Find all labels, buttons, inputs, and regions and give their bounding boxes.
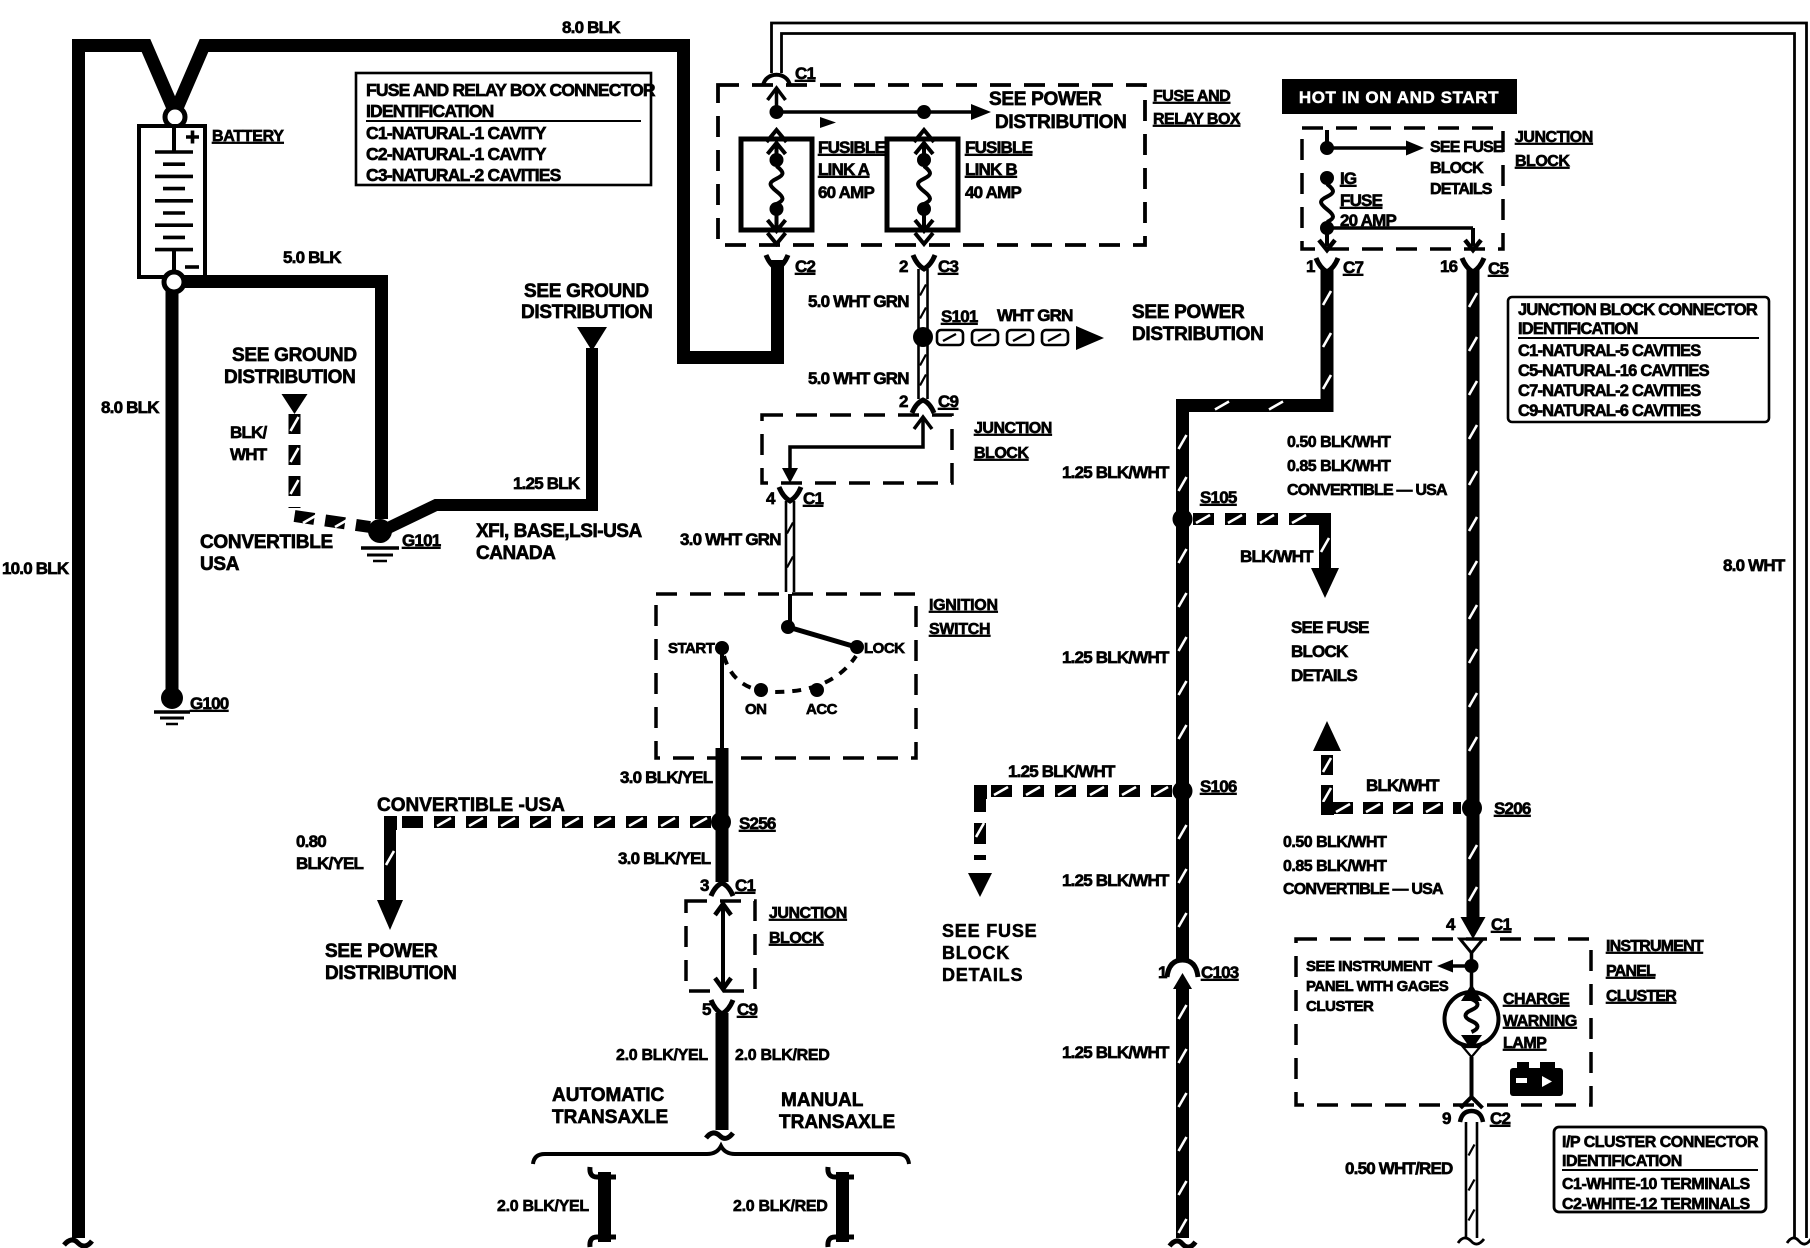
svg-text:C2-NATURAL-1 CAVITY: C2-NATURAL-1 CAVITY bbox=[366, 144, 547, 164]
svg-text:S101: S101 bbox=[941, 307, 978, 326]
connector C2 instrument cluster bbox=[1460, 1111, 1483, 1122]
svg-text:USA: USA bbox=[200, 554, 240, 575]
svg-text:3: 3 bbox=[700, 876, 709, 895]
svg-text:DISTRIBUTION: DISTRIBUTION bbox=[224, 367, 356, 388]
wire 1.25 BLK/WHT main run (C7 to C103 to bottom) bbox=[1183, 270, 1328, 1238]
svg-text:SEE FUSE: SEE FUSE bbox=[942, 921, 1037, 941]
svg-text:BLOCK: BLOCK bbox=[1430, 160, 1484, 177]
svg-text:DETAILS: DETAILS bbox=[1430, 181, 1493, 198]
svg-text:FUSE AND RELAY BOX CONNECTOR: FUSE AND RELAY BOX CONNECTOR bbox=[366, 80, 656, 100]
ignition switch contacts bbox=[788, 594, 792, 627]
svg-text:4: 4 bbox=[766, 489, 776, 508]
battery positive terminal bbox=[165, 107, 185, 127]
svg-text:1: 1 bbox=[1306, 257, 1315, 276]
fuse and relay box connector identification note bbox=[356, 73, 651, 185]
svg-text:LOCK: LOCK bbox=[864, 640, 905, 657]
svg-text:1: 1 bbox=[1158, 963, 1167, 982]
svg-text:S105: S105 bbox=[1200, 488, 1237, 507]
wire 0.80 BLK/YEL convertible branch bbox=[395, 816, 711, 828]
svg-text:1.25 BLK/WHT: 1.25 BLK/WHT bbox=[1062, 871, 1170, 890]
svg-text:WARNING: WARNING bbox=[1503, 1013, 1577, 1030]
svg-text:DISTRIBUTION: DISTRIBUTION bbox=[521, 302, 653, 323]
svg-text:0.85 BLK/WHT: 0.85 BLK/WHT bbox=[1283, 858, 1387, 875]
svg-text:FUSIBLE: FUSIBLE bbox=[965, 138, 1033, 157]
i/p cluster connector identification note bbox=[1554, 1127, 1766, 1212]
svg-text:DETAILS: DETAILS bbox=[1291, 666, 1357, 685]
connector C7 bbox=[1316, 258, 1338, 272]
bracket 2.0 BLK/RED (manual) bbox=[836, 1172, 849, 1242]
svg-text:1.25 BLK/WHT: 1.25 BLK/WHT bbox=[1008, 762, 1116, 781]
svg-text:C1: C1 bbox=[1491, 915, 1511, 934]
fuse and relay box (dashed) bbox=[718, 85, 1145, 245]
svg-text:BLOCK: BLOCK bbox=[1515, 153, 1570, 170]
svg-text:BLK/WHT: BLK/WHT bbox=[1240, 547, 1314, 566]
wire 8.0 BLK battery to G100 bbox=[166, 291, 179, 690]
svg-text:0.50 BLK/WHT: 0.50 BLK/WHT bbox=[1287, 434, 1391, 451]
svg-text:WHT GRN: WHT GRN bbox=[997, 306, 1073, 325]
power bus inside fuse box bbox=[768, 88, 786, 100]
svg-text:PANEL: PANEL bbox=[1606, 963, 1656, 980]
junction block (middle) bbox=[762, 415, 952, 483]
svg-text:2.0 BLK/YEL: 2.0 BLK/YEL bbox=[616, 1047, 708, 1064]
battery B1 bbox=[139, 126, 205, 277]
splice S206 bbox=[1462, 798, 1482, 818]
svg-text:IDENTIFICATION: IDENTIFICATION bbox=[366, 101, 494, 121]
svg-text:BLK/YEL: BLK/YEL bbox=[296, 854, 364, 873]
svg-text:2.0 BLK/RED: 2.0 BLK/RED bbox=[733, 1198, 828, 1215]
svg-text:C1-NATURAL-5 CAVITIES: C1-NATURAL-5 CAVITIES bbox=[1518, 342, 1701, 360]
junction block connector identification note bbox=[1508, 297, 1769, 422]
svg-text:SWITCH: SWITCH bbox=[929, 621, 990, 638]
svg-text:CONVERTIBLE — USA: CONVERTIBLE — USA bbox=[1287, 482, 1448, 499]
svg-text:C3-NATURAL-2 CAVITIES: C3-NATURAL-2 CAVITIES bbox=[366, 165, 561, 185]
svg-text:SEE POWER: SEE POWER bbox=[989, 89, 1102, 110]
svg-text:BLOCK: BLOCK bbox=[942, 943, 1010, 963]
svg-text:PANEL WITH GAGES: PANEL WITH GAGES bbox=[1306, 978, 1449, 995]
ground G101 bbox=[368, 519, 392, 543]
fusible link B bbox=[914, 130, 934, 142]
junction block 2 internal wire bbox=[721, 908, 725, 985]
svg-text:0.50 BLK/WHT: 0.50 BLK/WHT bbox=[1283, 834, 1387, 851]
svg-text:CONVERTIBLE -USA: CONVERTIBLE -USA bbox=[377, 795, 565, 816]
svg-text:BLOCK: BLOCK bbox=[974, 445, 1029, 462]
svg-text:ACC: ACC bbox=[806, 701, 838, 718]
svg-text:SEE POWER: SEE POWER bbox=[325, 941, 438, 962]
wire 10.0 BLK left edge bbox=[72, 46, 85, 1239]
splice S256 bbox=[711, 812, 731, 832]
svg-text:DISTRIBUTION: DISTRIBUTION bbox=[1132, 324, 1264, 345]
cluster feed node and see-instrument arrow bbox=[1470, 953, 1474, 992]
svg-text:INSTRUMENT: INSTRUMENT bbox=[1606, 938, 1704, 955]
wire BLK/WHT branch from S105 to fuse block bbox=[1193, 513, 1316, 525]
svg-text:C1-NATURAL-1 CAVITY: C1-NATURAL-1 CAVITY bbox=[366, 123, 547, 143]
wire 8.0 WHT hollow (C1 to right edge) bbox=[772, 23, 1807, 1238]
svg-text:8.0 WHT: 8.0 WHT bbox=[1723, 556, 1786, 575]
svg-text:SEE INSTRUMENT: SEE INSTRUMENT bbox=[1306, 958, 1432, 975]
svg-text:2: 2 bbox=[899, 257, 908, 276]
svg-text:SEE FUSE: SEE FUSE bbox=[1291, 618, 1369, 637]
svg-text:C2: C2 bbox=[795, 257, 815, 276]
connector C9 junction block bbox=[912, 400, 934, 413]
svg-text:IDENTIFICATION: IDENTIFICATION bbox=[1518, 320, 1638, 338]
svg-text:C1: C1 bbox=[795, 64, 815, 83]
svg-text:IGNITION: IGNITION bbox=[929, 597, 998, 614]
svg-text:S106: S106 bbox=[1200, 777, 1237, 796]
svg-text:WHT: WHT bbox=[230, 445, 268, 464]
svg-text:3.0 WHT GRN: 3.0 WHT GRN bbox=[680, 530, 781, 549]
svg-text:0.50 WHT/RED: 0.50 WHT/RED bbox=[1345, 1159, 1453, 1178]
wire BLK/WHT branch from S206 up to fuse block bbox=[1313, 721, 1341, 751]
charge warning lamp bbox=[1445, 992, 1499, 1046]
svg-text:0.80: 0.80 bbox=[296, 832, 326, 851]
wire 2.0 BLK/YEL / 2.0 BLK/RED (C9 down) bbox=[716, 1013, 729, 1130]
svg-text:IDENTIFICATION: IDENTIFICATION bbox=[1562, 1153, 1682, 1170]
svg-text:CONVERTIBLE — USA: CONVERTIBLE — USA bbox=[1283, 881, 1444, 898]
svg-text:2: 2 bbox=[899, 392, 908, 411]
svg-text:3.0 BLK/YEL: 3.0 BLK/YEL bbox=[620, 768, 713, 787]
svg-text:1.25 BLK: 1.25 BLK bbox=[513, 474, 581, 493]
svg-text:1.25 BLK/WHT: 1.25 BLK/WHT bbox=[1062, 463, 1170, 482]
svg-text:BLOCK: BLOCK bbox=[769, 930, 824, 947]
connector C3 bbox=[913, 255, 935, 269]
svg-text:LINK A: LINK A bbox=[818, 160, 870, 179]
svg-text:BLK/WHT: BLK/WHT bbox=[1366, 776, 1440, 795]
wire 1.25 BLK/WHT branch from S106 to fuse block bbox=[980, 791, 1172, 860]
svg-text:9: 9 bbox=[1442, 1109, 1451, 1128]
svg-text:C9-NATURAL-6 CAVITIES: C9-NATURAL-6 CAVITIES bbox=[1518, 402, 1701, 420]
svg-text:C103: C103 bbox=[1201, 963, 1239, 982]
battery negative terminal bbox=[164, 272, 184, 292]
bracket 2.0 BLK/YEL (automatic) bbox=[598, 1172, 611, 1242]
svg-text:I/P CLUSTER CONNECTOR: I/P CLUSTER CONNECTOR bbox=[1562, 1134, 1759, 1151]
svg-text:BLOCK: BLOCK bbox=[1291, 642, 1349, 661]
svg-text:DISTRIBUTION: DISTRIBUTION bbox=[325, 963, 457, 984]
svg-text:C1: C1 bbox=[735, 876, 755, 895]
svg-text:C9: C9 bbox=[737, 1000, 757, 1019]
connector C103 bbox=[1174, 961, 1191, 986]
svg-text:5.0 WHT GRN: 5.0 WHT GRN bbox=[808, 369, 909, 388]
svg-text:40 AMP: 40 AMP bbox=[965, 183, 1021, 202]
connector C1 junction block 2 bbox=[711, 883, 733, 896]
wire 5.0 WHT GRN hollow (C3 to C9) bbox=[917, 269, 920, 399]
svg-text:1.25 BLK/WHT: 1.25 BLK/WHT bbox=[1062, 1043, 1170, 1062]
svg-text:FUSE: FUSE bbox=[1340, 191, 1383, 210]
svg-text:C5-NATURAL-16 CAVITIES: C5-NATURAL-16 CAVITIES bbox=[1518, 362, 1710, 380]
svg-text:2.0 BLK/YEL: 2.0 BLK/YEL bbox=[497, 1198, 589, 1215]
wire 3.0 BLK/YEL (START to S256) bbox=[720, 652, 724, 750]
svg-text:S256: S256 bbox=[739, 814, 776, 833]
svg-text:C2-WHITE-12 TERMINALS: C2-WHITE-12 TERMINALS bbox=[1562, 1196, 1751, 1213]
svg-text:JUNCTION BLOCK CONNECTOR: JUNCTION BLOCK CONNECTOR bbox=[1518, 301, 1758, 319]
svg-text:2.0 BLK/RED: 2.0 BLK/RED bbox=[735, 1047, 830, 1064]
svg-text:FUSE AND: FUSE AND bbox=[1153, 88, 1230, 105]
svg-text:20 AMP: 20 AMP bbox=[1340, 211, 1396, 230]
svg-text:C2: C2 bbox=[1490, 1109, 1510, 1128]
wire 8.0 BLK battery positive feed bbox=[72, 46, 173, 109]
svg-text:1.25 BLK/WHT: 1.25 BLK/WHT bbox=[1062, 648, 1170, 667]
svg-text:DETAILS: DETAILS bbox=[942, 965, 1023, 985]
svg-text:SEE POWER: SEE POWER bbox=[1132, 302, 1245, 323]
svg-text:ON: ON bbox=[745, 701, 767, 718]
banner HOT IN ON AND START bbox=[1282, 79, 1517, 114]
wire 3.0 WHT GRN hollow (C1 to ignition switch) bbox=[785, 501, 788, 592]
svg-text:BLK/: BLK/ bbox=[230, 423, 268, 442]
svg-text:5.0 BLK: 5.0 BLK bbox=[283, 248, 342, 267]
svg-text:CLUSTER: CLUSTER bbox=[1606, 988, 1677, 1005]
svg-text:SEE FUSE: SEE FUSE bbox=[1430, 139, 1504, 156]
svg-text:G100: G100 bbox=[190, 694, 229, 713]
connector C1 junction block bbox=[779, 487, 801, 501]
svg-text:TRANSAXLE: TRANSAXLE bbox=[779, 1112, 895, 1133]
svg-text:CLUSTER: CLUSTER bbox=[1306, 998, 1374, 1015]
instrument panel cluster (dashed box) bbox=[1296, 939, 1591, 1105]
connector C1 fuse box bbox=[763, 75, 790, 86]
wire 1.25 BLK bbox=[384, 348, 592, 530]
svg-text:CONVERTIBLE: CONVERTIBLE bbox=[200, 532, 333, 553]
svg-text:G101: G101 bbox=[402, 531, 441, 550]
svg-text:TRANSAXLE: TRANSAXLE bbox=[552, 1107, 668, 1128]
wire 0.50 BLK/WHT (C5 to instrument cluster) bbox=[1467, 270, 1480, 918]
brace (transaxle choices) bbox=[533, 1146, 909, 1164]
svg-text:60 AMP: 60 AMP bbox=[818, 183, 874, 202]
svg-text:0.85 BLK/WHT: 0.85 BLK/WHT bbox=[1287, 458, 1391, 475]
svg-text:16: 16 bbox=[1440, 257, 1458, 276]
fusible link A bbox=[767, 130, 787, 142]
svg-text:5.0 WHT GRN: 5.0 WHT GRN bbox=[808, 292, 909, 311]
svg-text:C5: C5 bbox=[1488, 259, 1508, 278]
svg-text:LINK B: LINK B bbox=[965, 160, 1017, 179]
svg-text:IG: IG bbox=[1340, 169, 1357, 188]
svg-text:JUNCTION: JUNCTION bbox=[1515, 129, 1593, 146]
svg-text:HOT IN ON AND START: HOT IN ON AND START bbox=[1299, 88, 1499, 107]
connector C1 instrument cluster bbox=[1460, 939, 1483, 953]
svg-text:C7-NATURAL-2 CAVITIES: C7-NATURAL-2 CAVITIES bbox=[1518, 382, 1701, 400]
svg-text:SEE GROUND: SEE GROUND bbox=[524, 281, 649, 302]
svg-text:C1: C1 bbox=[803, 489, 823, 508]
ground G100 bbox=[161, 687, 183, 709]
svg-text:C7: C7 bbox=[1343, 258, 1363, 277]
svg-text:C1-WHITE-10 TERMINALS: C1-WHITE-10 TERMINALS bbox=[1562, 1176, 1751, 1193]
svg-text:BATTERY: BATTERY bbox=[212, 128, 284, 145]
svg-text:C9: C9 bbox=[938, 392, 958, 411]
svg-text:8.0 BLK: 8.0 BLK bbox=[101, 398, 160, 417]
splice S106 bbox=[1173, 781, 1193, 801]
connector C5 bbox=[1462, 258, 1484, 272]
svg-text:MANUAL: MANUAL bbox=[781, 1090, 864, 1111]
svg-text:RELAY BOX: RELAY BOX bbox=[1153, 111, 1241, 128]
junction block 2 (dashed) bbox=[686, 901, 755, 991]
IG fuse and internal bus bbox=[1325, 130, 1329, 147]
svg-text:S206: S206 bbox=[1494, 799, 1531, 818]
svg-text:LAMP: LAMP bbox=[1503, 1035, 1547, 1052]
svg-text:XFI, BASE,LSI-USA: XFI, BASE,LSI-USA bbox=[476, 521, 642, 542]
dashed arrow WHT GRN to power distribution bbox=[937, 330, 963, 345]
ignition switch (dashed box) bbox=[656, 594, 916, 758]
svg-text:JUNCTION: JUNCTION bbox=[974, 420, 1052, 437]
svg-text:JUNCTION: JUNCTION bbox=[769, 905, 847, 922]
splice S101 bbox=[913, 327, 933, 347]
junction block internal wire bbox=[914, 417, 932, 429]
svg-text:AUTOMATIC: AUTOMATIC bbox=[552, 1085, 665, 1106]
connector C2 bbox=[766, 255, 788, 269]
svg-text:FUSIBLE: FUSIBLE bbox=[818, 138, 886, 157]
svg-text:4: 4 bbox=[1446, 915, 1456, 934]
connector C9 junction block 2 bbox=[711, 1000, 733, 1014]
junction block 3 (dashed, IG fuse) bbox=[1302, 128, 1503, 249]
svg-text:CHARGE: CHARGE bbox=[1503, 991, 1570, 1008]
wire 0.50 WHT/RED hollow (C2 down) bbox=[1465, 1122, 1468, 1238]
svg-text:C3: C3 bbox=[938, 257, 958, 276]
battery icon bbox=[1517, 1062, 1529, 1071]
splice S105 bbox=[1173, 509, 1193, 529]
svg-text:START: START bbox=[668, 640, 715, 657]
svg-text:8.0 BLK: 8.0 BLK bbox=[562, 18, 621, 37]
svg-text:SEE GROUND: SEE GROUND bbox=[232, 345, 357, 366]
svg-text:5: 5 bbox=[702, 1000, 711, 1019]
svg-text:10.0 BLK: 10.0 BLK bbox=[2, 559, 70, 578]
svg-text:CANADA: CANADA bbox=[476, 543, 556, 564]
wire BLK/WHT convertible to G101 bbox=[289, 414, 301, 508]
svg-text:DISTRIBUTION: DISTRIBUTION bbox=[995, 112, 1127, 133]
wire 5.0 BLK battery to G101 bbox=[183, 282, 382, 520]
svg-text:3.0 BLK/YEL: 3.0 BLK/YEL bbox=[618, 849, 711, 868]
